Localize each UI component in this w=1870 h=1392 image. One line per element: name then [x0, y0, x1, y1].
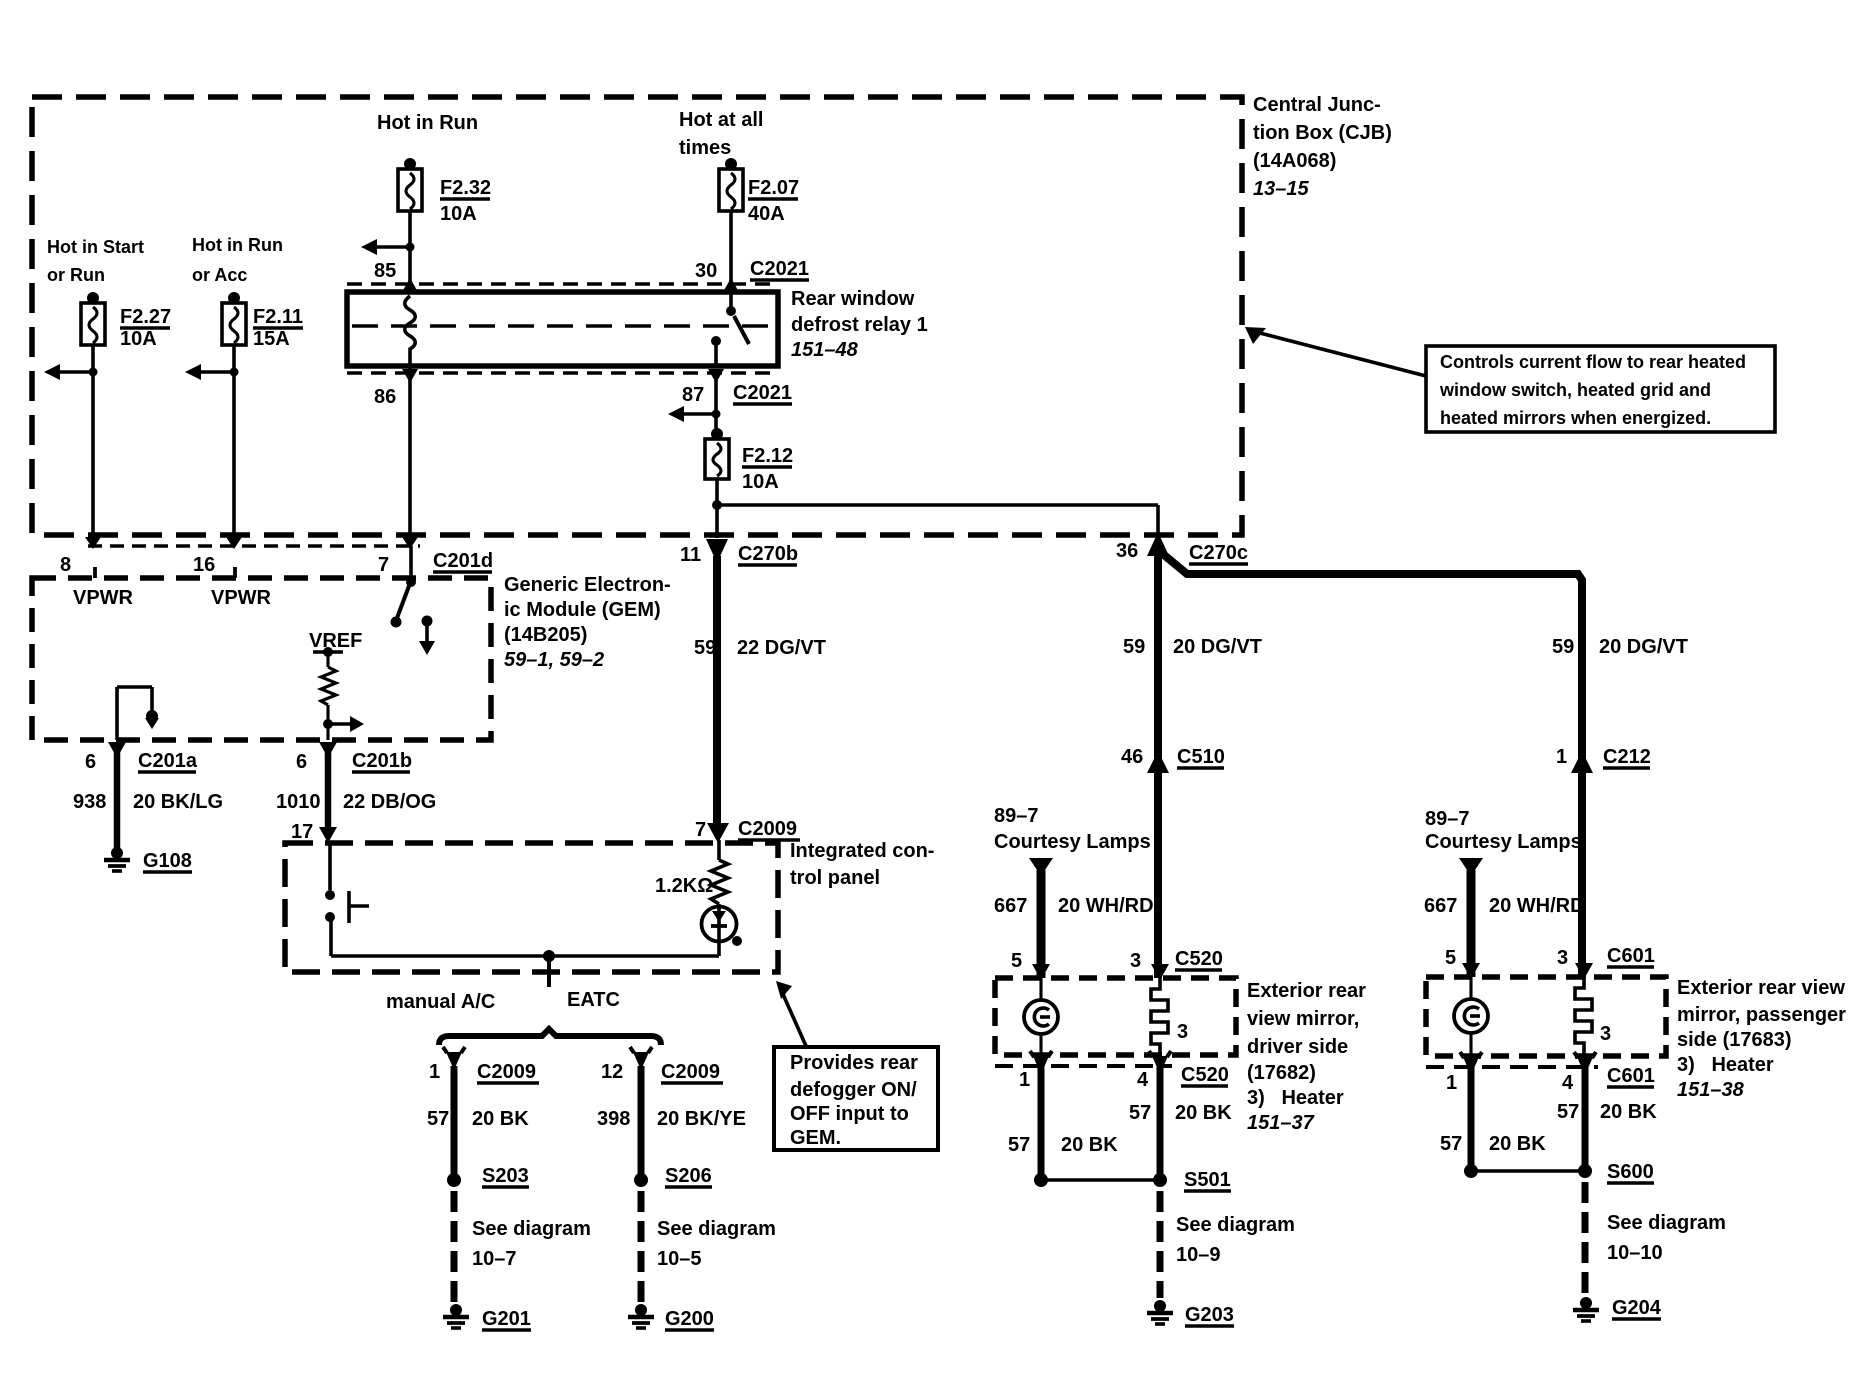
- ICP internal resistor 1.2Kohm: [655, 840, 728, 904]
- svg-text:1: 1: [1556, 746, 1567, 768]
- svg-text:57: 57: [1129, 1102, 1151, 1124]
- svg-text:89–7: 89–7: [1425, 808, 1470, 830]
- svg-text:Controls current flow to rear: Controls current flow to rear heated: [1440, 352, 1746, 372]
- svg-text:6: 6: [85, 751, 96, 773]
- pin 85 label and arrow: [374, 260, 418, 292]
- svg-text:10–5: 10–5: [657, 1248, 702, 1270]
- svg-text:VPWR: VPWR: [73, 587, 134, 609]
- svg-text:C201b: C201b: [352, 750, 412, 772]
- svg-text:EATC: EATC: [567, 989, 620, 1011]
- svg-text:See diagram: See diagram: [1607, 1212, 1726, 1234]
- svg-text:12: 12: [601, 1061, 623, 1083]
- fuse F2.07 40A: [719, 158, 799, 225]
- svg-text:heated mirrors when energized.: heated mirrors when energized.: [1440, 408, 1711, 428]
- svg-text:938: 938: [73, 791, 106, 813]
- fuse F2.32 10A: [398, 158, 491, 225]
- svg-text:driver side: driver side: [1247, 1036, 1348, 1058]
- svg-text:3) Heater: 3) Heater: [1677, 1054, 1774, 1076]
- broken wire to G204: [1585, 1182, 1726, 1295]
- passenger courtesy lamps label: [1425, 808, 1582, 853]
- link wire from F2.12 node to pin 36: [717, 505, 1158, 534]
- wire 57 20 BK: [427, 1066, 529, 1180]
- driver courtesy lamp feed wire 667: [994, 858, 1154, 978]
- driver pin 1 wire 57 20 BK: [1008, 1057, 1118, 1180]
- GEM internal hook wire: [117, 687, 159, 740]
- passenger connector C601 top pins 5 and 3: [1445, 945, 1655, 979]
- svg-text:10–7: 10–7: [472, 1248, 517, 1270]
- svg-text:F2.11: F2.11: [253, 306, 303, 328]
- svg-text:(17682): (17682): [1247, 1062, 1316, 1084]
- pin 12 connector C2009: [601, 1047, 723, 1083]
- driver mirror lamp: [1024, 978, 1058, 1055]
- svg-text:6: 6: [296, 751, 307, 773]
- svg-text:Integrated con-: Integrated con-: [790, 840, 934, 862]
- driver courtesy lamps label: [994, 805, 1151, 853]
- svg-text:(14B205): (14B205): [504, 624, 587, 646]
- pin 30 label and connector C2021: [695, 258, 809, 292]
- passenger connector C601 bottom pins 1 and 4: [1446, 1052, 1655, 1094]
- svg-text:85: 85: [374, 260, 396, 282]
- svg-text:C2021: C2021: [750, 258, 809, 280]
- svg-text:Hot in Run: Hot in Run: [377, 112, 478, 134]
- svg-text:20 BK: 20 BK: [1600, 1101, 1657, 1123]
- trunk branch wire to passenger mirror: [1158, 550, 1688, 978]
- svg-text:46: 46: [1121, 746, 1143, 768]
- svg-text:3: 3: [1177, 1021, 1188, 1043]
- passenger courtesy lamp feed wire 667: [1424, 858, 1585, 977]
- label Hot in Run or Acc (F2.11): [192, 235, 283, 285]
- svg-text:C212: C212: [1603, 746, 1651, 768]
- svg-text:57: 57: [427, 1108, 449, 1130]
- svg-text:S203: S203: [482, 1165, 529, 1187]
- svg-text:4: 4: [1137, 1069, 1149, 1091]
- svg-text:S600: S600: [1607, 1161, 1654, 1183]
- svg-text:Generic Electron-: Generic Electron-: [504, 574, 671, 596]
- driver exterior mirror dashed box: [995, 978, 1236, 1066]
- svg-text:See diagram: See diagram: [472, 1218, 591, 1240]
- Generic Electronic Module (GEM) dashed box: [32, 574, 671, 740]
- svg-text:Hot at all: Hot at all: [679, 109, 763, 131]
- svg-text:57: 57: [1440, 1133, 1462, 1155]
- fuse F2.12 10A: [705, 428, 793, 493]
- ground G203: [1147, 1300, 1234, 1326]
- wire from F2.07 to relay pin 30: [729, 211, 733, 294]
- svg-text:20 DG/VT: 20 DG/VT: [1599, 636, 1688, 658]
- passenger mirror text block: [1677, 977, 1846, 1101]
- svg-text:20 DG/VT: 20 DG/VT: [1173, 636, 1262, 658]
- svg-text:151–37: 151–37: [1247, 1112, 1315, 1134]
- broken wire to G203: [1160, 1191, 1295, 1298]
- brace over C2009 pins: [439, 1029, 661, 1045]
- pin 87 label and connector C2021: [682, 369, 792, 406]
- ICP internal switch: [325, 843, 369, 956]
- svg-text:59–1, 59–2: 59–1, 59–2: [504, 649, 604, 671]
- label Hot in Run (F2.32): [377, 112, 478, 134]
- trunk wire C270b down to ICP pin 7: [694, 556, 826, 843]
- rear window defrost relay 1 box: [347, 284, 928, 373]
- svg-text:3: 3: [1130, 950, 1141, 972]
- svg-text:defogger ON/: defogger ON/: [790, 1079, 917, 1101]
- splice S600: [1464, 1161, 1654, 1183]
- passenger pin 4 wire 57 20 BK: [1557, 1058, 1657, 1171]
- ground G200: [628, 1304, 714, 1330]
- svg-text:C510: C510: [1177, 746, 1225, 768]
- svg-text:20 BK: 20 BK: [1061, 1134, 1118, 1156]
- ICP internal bottom wire: [331, 950, 719, 962]
- svg-text:Exterior rear: Exterior rear: [1247, 980, 1366, 1002]
- passenger exterior mirror dashed box: [1426, 977, 1666, 1067]
- splice S203: [447, 1165, 529, 1187]
- svg-text:398: 398: [597, 1108, 630, 1130]
- GEM pin 6 connector C201a: [85, 742, 198, 773]
- svg-text:86: 86: [374, 386, 396, 408]
- relay switch contact: [711, 294, 749, 366]
- passenger pin 1 wire 57 20 BK: [1440, 1058, 1546, 1171]
- ground G108: [104, 847, 192, 872]
- svg-text:20 BK: 20 BK: [1175, 1102, 1232, 1124]
- svg-text:view mirror,: view mirror,: [1247, 1008, 1359, 1030]
- driver connector C520 top pins 5 and 3: [1011, 948, 1223, 980]
- pin 86 label and arrow: [374, 366, 418, 549]
- ground G201: [443, 1304, 531, 1330]
- connector C212 pin 1: [1556, 746, 1651, 773]
- svg-text:20 BK/LG: 20 BK/LG: [133, 791, 223, 813]
- svg-text:10–10: 10–10: [1607, 1242, 1663, 1264]
- driver pin 4 wire 57 20 BK: [1129, 1057, 1232, 1180]
- svg-text:Hot in Run: Hot in Run: [192, 235, 283, 255]
- wire from F2.27 down to GEM pin 8: [44, 345, 101, 549]
- svg-text:or Acc: or Acc: [192, 265, 247, 285]
- Central Junction Box (CJB) dashed enclosure: [32, 97, 1242, 535]
- svg-text:20 BK/YE: 20 BK/YE: [657, 1108, 746, 1130]
- svg-text:Hot in Start: Hot in Start: [47, 237, 144, 257]
- svg-text:667: 667: [994, 895, 1027, 917]
- svg-text:151–48: 151–48: [791, 339, 859, 361]
- svg-text:G200: G200: [665, 1308, 714, 1330]
- svg-text:13–15: 13–15: [1253, 178, 1309, 200]
- svg-text:Rear window: Rear window: [791, 288, 915, 310]
- GEM pin 6 connector C201b: [296, 742, 412, 773]
- svg-text:tion Box (CJB): tion Box (CJB): [1253, 122, 1392, 144]
- svg-text:defrost relay 1: defrost relay 1: [791, 314, 928, 336]
- svg-text:C2009: C2009: [738, 818, 797, 840]
- EATC stub crossing ICP edge: [547, 956, 551, 987]
- svg-text:Provides rear: Provides rear: [790, 1052, 918, 1074]
- fuse F2.11 15A: [222, 292, 303, 350]
- svg-text:5: 5: [1011, 950, 1022, 972]
- pin 1 connector C2009: [429, 1047, 539, 1083]
- svg-text:window switch, heated grid and: window switch, heated grid and: [1439, 380, 1711, 400]
- GEM internal switch at pin 7: [391, 546, 436, 655]
- svg-text:8: 8: [60, 554, 71, 576]
- svg-text:22 DG/VT: 22 DG/VT: [737, 637, 826, 659]
- svg-text:5: 5: [1445, 947, 1456, 969]
- svg-text:GEM.: GEM.: [790, 1127, 841, 1149]
- Integrated control panel dashed box: [285, 840, 934, 972]
- ICP indicator lamp: [702, 904, 743, 956]
- svg-text:C601: C601: [1607, 1065, 1655, 1087]
- broken wire to G201: [454, 1191, 591, 1302]
- wire pin 87 down with left arrow: [668, 380, 721, 430]
- svg-text:20 WH/RD: 20 WH/RD: [1489, 895, 1585, 917]
- svg-text:VPWR: VPWR: [211, 587, 272, 609]
- svg-text:15A: 15A: [253, 328, 290, 350]
- svg-text:59: 59: [1552, 636, 1574, 658]
- svg-text:7: 7: [378, 554, 389, 576]
- svg-text:1.2KΩ: 1.2KΩ: [655, 875, 713, 897]
- splice S501: [1034, 1169, 1231, 1191]
- connector C510 pin 46: [1121, 746, 1225, 773]
- svg-text:C2021: C2021: [733, 382, 792, 404]
- svg-text:36: 36: [1116, 540, 1138, 562]
- passenger mirror heater element: [1575, 977, 1611, 1056]
- arrow from note box to CJB edge: [1245, 327, 1426, 376]
- svg-text:C270c: C270c: [1189, 542, 1248, 564]
- svg-text:C201d: C201d: [433, 550, 493, 572]
- labels manual A/C and EATC: [386, 989, 620, 1013]
- wire from F2.32 to relay pin 85: [361, 211, 415, 294]
- svg-text:40A: 40A: [748, 203, 785, 225]
- svg-text:S501: S501: [1184, 1169, 1231, 1191]
- svg-text:3) Heater: 3) Heater: [1247, 1087, 1344, 1109]
- svg-text:F2.32: F2.32: [440, 177, 491, 199]
- svg-text:Courtesy Lamps: Courtesy Lamps: [1425, 831, 1582, 853]
- svg-text:See diagram: See diagram: [1176, 1214, 1295, 1236]
- svg-text:30: 30: [695, 260, 717, 282]
- splice S206: [634, 1165, 712, 1187]
- svg-text:F2.07: F2.07: [748, 177, 799, 199]
- svg-text:17: 17: [291, 821, 313, 843]
- svg-text:G201: G201: [482, 1308, 531, 1330]
- svg-text:G203: G203: [1185, 1304, 1234, 1326]
- svg-text:151–38: 151–38: [1677, 1079, 1745, 1101]
- note box: controls current flow: [1426, 346, 1775, 432]
- relay coil: [405, 296, 416, 366]
- svg-text:times: times: [679, 137, 731, 159]
- svg-text:89–7: 89–7: [994, 805, 1039, 827]
- svg-text:trol panel: trol panel: [790, 867, 880, 889]
- svg-text:VREF: VREF: [309, 630, 362, 652]
- wire 938 20 BK/LG: [73, 752, 223, 848]
- wire below F2.12 to CJB bottom: [712, 479, 722, 538]
- svg-text:7: 7: [695, 819, 706, 841]
- wire 398 20 BK/YE: [597, 1066, 746, 1180]
- svg-text:1: 1: [429, 1061, 440, 1083]
- svg-text:10A: 10A: [440, 203, 477, 225]
- trunk wire from pin 36 down to driver mirror: [1123, 548, 1262, 978]
- svg-text:59: 59: [1123, 636, 1145, 658]
- svg-text:1: 1: [1019, 1069, 1030, 1091]
- wire from F2.11 down to GEM pin 16: [185, 345, 242, 549]
- connector C201d dashed line: [60, 546, 493, 576]
- svg-text:3: 3: [1600, 1023, 1611, 1045]
- GEM pin 8 stub / VPWR: [73, 567, 134, 609]
- driver connector C520 bottom pins 1 and 4: [1019, 1051, 1229, 1091]
- svg-text:4: 4: [1562, 1072, 1574, 1094]
- svg-text:F2.12: F2.12: [742, 445, 793, 467]
- svg-text:20 BK: 20 BK: [1489, 1133, 1546, 1155]
- svg-text:11: 11: [680, 544, 701, 566]
- svg-text:10–9: 10–9: [1176, 1244, 1221, 1266]
- svg-text:G204: G204: [1612, 1297, 1662, 1319]
- broken wire to G200: [641, 1191, 776, 1302]
- svg-text:3: 3: [1557, 947, 1568, 969]
- pin 11 connector C270b: [680, 539, 798, 566]
- wire 1010 22 DB/OG: [276, 752, 436, 843]
- label Hot at all times (F2.07): [679, 109, 763, 159]
- svg-text:ic Module (GEM): ic Module (GEM): [504, 599, 661, 621]
- svg-text:16: 16: [193, 554, 215, 576]
- svg-text:C2009: C2009: [477, 1061, 536, 1083]
- svg-text:OFF input to: OFF input to: [790, 1103, 909, 1125]
- svg-text:See diagram: See diagram: [657, 1218, 776, 1240]
- svg-text:mirror, passenger: mirror, passenger: [1677, 1004, 1846, 1026]
- svg-text:1010: 1010: [276, 791, 321, 813]
- CJB label text: [1253, 94, 1392, 200]
- svg-text:22 DB/OG: 22 DB/OG: [343, 791, 436, 813]
- svg-text:C520: C520: [1175, 948, 1223, 970]
- svg-text:87: 87: [682, 384, 704, 406]
- svg-text:C601: C601: [1607, 945, 1655, 967]
- svg-text:or Run: or Run: [47, 265, 105, 285]
- driver mirror text block: [1247, 980, 1366, 1134]
- svg-text:57: 57: [1557, 1101, 1579, 1123]
- svg-text:1: 1: [1446, 1072, 1457, 1094]
- svg-text:10A: 10A: [742, 471, 779, 493]
- GEM internal VREF resistor: [309, 630, 364, 740]
- svg-text:Central Junc-: Central Junc-: [1253, 94, 1381, 116]
- svg-text:10A: 10A: [120, 328, 157, 350]
- arrow from note box to ICP corner: [776, 981, 806, 1046]
- svg-text:59: 59: [694, 637, 716, 659]
- svg-text:C2009: C2009: [661, 1061, 720, 1083]
- svg-text:57: 57: [1008, 1134, 1030, 1156]
- svg-text:G108: G108: [143, 850, 192, 872]
- svg-text:side (17683): side (17683): [1677, 1029, 1792, 1051]
- svg-text:C270b: C270b: [738, 543, 798, 565]
- ground G204: [1573, 1297, 1662, 1321]
- svg-text:C520: C520: [1181, 1064, 1229, 1086]
- note box: provides rear defogger: [774, 1047, 938, 1150]
- svg-text:(14A068): (14A068): [1253, 150, 1336, 172]
- svg-text:manual A/C: manual A/C: [386, 991, 495, 1013]
- passenger mirror lamp: [1454, 977, 1488, 1056]
- driver mirror heater element: [1151, 978, 1188, 1055]
- svg-text:20 BK: 20 BK: [472, 1108, 529, 1130]
- svg-text:Exterior rear view: Exterior rear view: [1677, 977, 1845, 999]
- svg-text:Courtesy Lamps: Courtesy Lamps: [994, 831, 1151, 853]
- GEM pin 16 stub / VPWR: [211, 567, 272, 609]
- svg-text:F2.27: F2.27: [120, 306, 171, 328]
- svg-text:20 WH/RD: 20 WH/RD: [1058, 895, 1154, 917]
- pin 36 connector C270c: [1116, 532, 1248, 564]
- svg-text:S206: S206: [665, 1165, 712, 1187]
- svg-text:667: 667: [1424, 895, 1457, 917]
- label Hot in Start or Run (F2.27): [47, 237, 144, 285]
- fuse F2.27 10A: [81, 292, 171, 350]
- svg-text:C201a: C201a: [138, 750, 198, 772]
